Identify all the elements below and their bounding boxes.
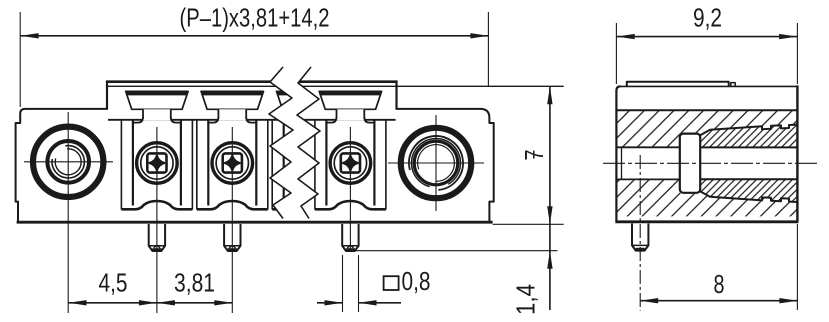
- svg-text:3,81: 3,81: [174, 267, 215, 297]
- svg-text:9,2: 9,2: [693, 2, 722, 32]
- svg-text:8: 8: [714, 269, 725, 299]
- svg-text:1,4: 1,4: [511, 284, 541, 315]
- svg-text:0,8: 0,8: [402, 266, 431, 296]
- svg-text:4,5: 4,5: [99, 267, 128, 297]
- svg-text:(P–1)x3,81+14,2: (P–1)x3,81+14,2: [180, 3, 330, 33]
